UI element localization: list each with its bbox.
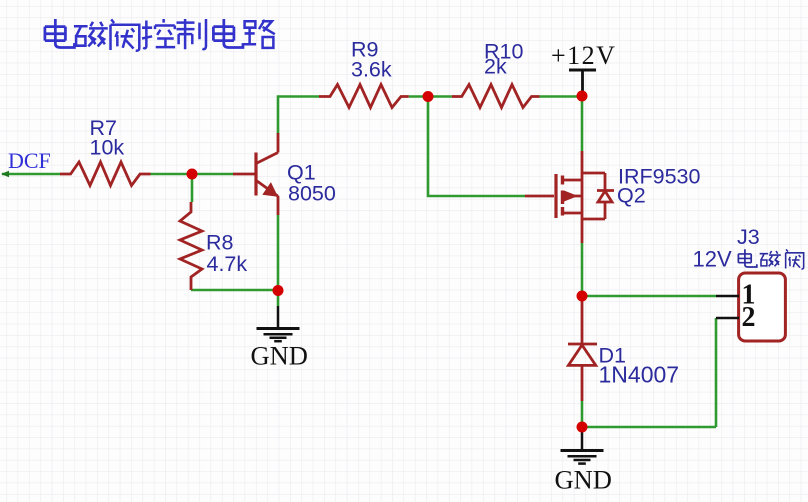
svg-text:3.6k: 3.6k: [351, 58, 392, 82]
svg-text:8050: 8050: [288, 182, 336, 206]
svg-text:GND: GND: [251, 341, 308, 371]
svg-text:DCF: DCF: [8, 148, 51, 173]
svg-text:2: 2: [742, 302, 756, 333]
svg-text:4.7k: 4.7k: [207, 252, 248, 276]
svg-text:10k: 10k: [90, 136, 125, 160]
svg-text:12V: 12V: [693, 247, 732, 272]
svg-text:GND: GND: [555, 465, 612, 495]
svg-text:1N4007: 1N4007: [599, 362, 680, 388]
svg-text:+12V: +12V: [551, 41, 616, 70]
svg-text:R8: R8: [206, 231, 234, 255]
svg-text:J3: J3: [737, 225, 760, 249]
svg-text:2k: 2k: [484, 55, 507, 79]
svg-text:Q2: Q2: [617, 184, 646, 208]
